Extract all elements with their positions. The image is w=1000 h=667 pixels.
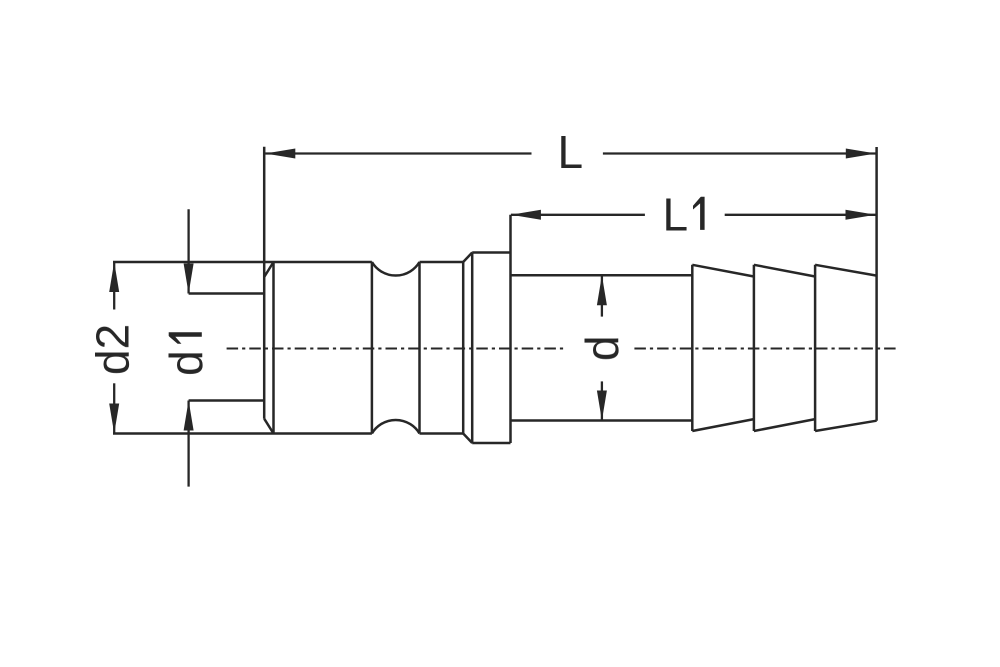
barb 3 top slope bbox=[815, 265, 877, 276]
groove bottom arc bbox=[372, 420, 420, 434]
label L1: digit 1 bbox=[693, 197, 705, 230]
centerline left of label d bbox=[227, 348, 564, 350]
dimension L1 line right segment bbox=[725, 214, 876, 216]
dimension d2 line upper segment bbox=[113, 262, 115, 310]
bottom chamfer to body bbox=[264, 419, 273, 434]
hose stem bottom edge bbox=[511, 419, 693, 422]
dimension d2 line lower segment bbox=[113, 383, 115, 433]
arrowhead d up bbox=[597, 275, 607, 305]
d2 bottom extension and body bottom edge bbox=[113, 432, 372, 435]
svg-text:d: d bbox=[160, 350, 212, 376]
barb 2 top slope bbox=[754, 265, 815, 277]
chamfer edge line bbox=[462, 262, 465, 434]
centerline right of label d bbox=[634, 348, 898, 350]
dimension d lower leader bbox=[601, 381, 603, 420]
dimension L1 line left segment bbox=[511, 214, 645, 216]
arrowhead d down bbox=[597, 391, 607, 421]
dimension d1 upper leader bbox=[187, 209, 189, 293]
groove top arc bbox=[372, 262, 420, 276]
barb 1 left face bbox=[691, 265, 694, 431]
barb 2 left face bbox=[753, 265, 756, 431]
collar bottom chamfer bbox=[463, 434, 472, 444]
arrowhead L left bbox=[265, 149, 295, 159]
collar top chamfer bbox=[463, 253, 472, 263]
body top edge right of groove bbox=[420, 261, 464, 264]
arrowhead d2 down bbox=[109, 404, 119, 434]
tip cylinder d1 bottom edge bbox=[189, 399, 265, 402]
collar right face and L1 extension line bbox=[509, 215, 512, 443]
arrowhead d1 up bbox=[184, 401, 194, 431]
svg-text:L: L bbox=[663, 188, 689, 240]
label d1: digit 1 bbox=[169, 332, 202, 344]
groove left wall bbox=[371, 262, 374, 434]
groove right wall bbox=[418, 262, 421, 434]
dimension d1 lower leader bbox=[187, 401, 189, 487]
collar left edge line bbox=[471, 253, 474, 444]
dimension L line left segment bbox=[265, 152, 531, 154]
body bottom edge right of groove bbox=[420, 432, 464, 435]
svg-text:L: L bbox=[558, 126, 584, 178]
arrowhead L1 right bbox=[846, 210, 876, 220]
barb 3 left face bbox=[814, 265, 817, 431]
tip cylinder d1 top edge bbox=[189, 292, 265, 295]
d2 top extension and body top edge bbox=[113, 261, 372, 264]
right end face and L extension line bbox=[875, 147, 878, 421]
barb 2 bottom slope bbox=[754, 419, 815, 431]
barb 1 bottom slope bbox=[692, 419, 754, 431]
body left edge line bbox=[272, 262, 275, 434]
hose stem top edge bbox=[511, 274, 693, 277]
arrowhead L1 left bbox=[511, 210, 541, 220]
svg-text:d2: d2 bbox=[87, 324, 139, 375]
collar top edge bbox=[472, 251, 510, 254]
barb 1 top slope bbox=[692, 265, 754, 277]
dimension L line right segment bbox=[603, 152, 876, 154]
barb 3 bottom slope bbox=[815, 421, 877, 431]
step face and L extension line bbox=[263, 147, 266, 419]
collar bottom edge bbox=[472, 442, 510, 445]
dimension d upper leader bbox=[601, 275, 603, 316]
arrowhead L right bbox=[846, 149, 876, 159]
arrowhead d1 down bbox=[184, 264, 194, 294]
arrowhead d2 up bbox=[109, 262, 119, 292]
top chamfer to body bbox=[264, 262, 273, 277]
svg-text:d: d bbox=[576, 336, 628, 362]
